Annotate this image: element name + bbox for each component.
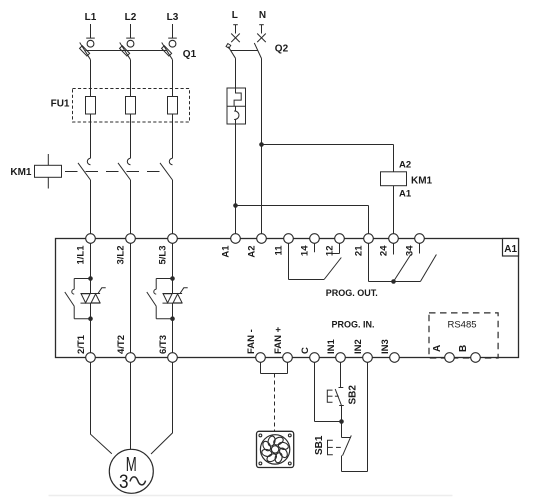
- svg-text:Q2: Q2: [275, 44, 289, 55]
- wire N branch to KM1 coil A2: [262, 144, 394, 146]
- wire fan bracket: [261, 373, 288, 375]
- fuse FU1 pole 2: [126, 97, 136, 115]
- svg-text:PROG. OUT.: PROG. OUT.: [326, 288, 378, 298]
- contactor KM1 linkage dashed: [65, 171, 168, 173]
- wire L2 drop: [130, 24, 132, 38]
- wire KM1 contact 3 to terminal: [172, 180, 174, 234]
- pushbutton SB1 NC contact: [342, 437, 351, 439]
- pushbutton SB2 actuator: [327, 390, 332, 402]
- breaker Q1 pole 2 blade: [120, 43, 131, 60]
- terminal IN2: [363, 353, 373, 363]
- svg-text:L1: L1: [85, 12, 97, 23]
- terminal 4/T2: [126, 353, 136, 363]
- wire supply drop: [261, 25, 263, 34]
- Q2 magnetic release element: [235, 106, 237, 111]
- breaker Q1 linkage bar: [86, 50, 168, 52]
- relay 1 NO stub terminal 14: [314, 243, 316, 252]
- scan artifact line: [49, 495, 453, 497]
- terminal A1: [231, 234, 241, 244]
- svg-text:Q1: Q1: [183, 49, 197, 60]
- bypass contact branch 1/L1: [74, 278, 90, 280]
- breaker Q1 pole 1 blade: [80, 43, 91, 60]
- relay 1 NC stub terminal 12: [339, 243, 341, 253]
- svg-text:IN1: IN1: [326, 339, 337, 355]
- svg-text:12: 12: [325, 246, 336, 257]
- RS485 port dashed outline: [429, 313, 498, 358]
- wire IN1 drop: [340, 362, 342, 387]
- svg-text:21: 21: [354, 245, 365, 256]
- wire 6/T3 to motor: [151, 362, 173, 454]
- fuse block FU1 dashed outline: [73, 89, 190, 123]
- terminal IN1: [336, 353, 346, 363]
- terminal FAN +: [283, 353, 293, 363]
- svg-text:PROG. IN.: PROG. IN.: [331, 320, 374, 330]
- svg-text:A1: A1: [221, 245, 232, 258]
- wire KM1 coil A1 to terminal 24: [393, 186, 395, 234]
- svg-text:B: B: [458, 345, 469, 352]
- svg-text:2/T1: 2/T1: [76, 334, 87, 354]
- terminal 2/T1: [86, 353, 96, 363]
- svg-text:RS485: RS485: [447, 320, 476, 331]
- svg-text:L2: L2: [125, 12, 137, 23]
- contactor KM1 coil (left): [47, 154, 49, 165]
- wire fan dashed lead: [274, 374, 276, 432]
- node L branch junction: [233, 203, 238, 208]
- svg-text:A1: A1: [504, 244, 517, 255]
- svg-text:3/L2: 3/L2: [116, 246, 127, 265]
- wire KM1 contact 2 to terminal: [130, 180, 132, 234]
- svg-text:L3: L3: [167, 12, 179, 23]
- wire N to terminal A2: [261, 59, 263, 234]
- svg-text:34: 34: [405, 245, 416, 256]
- contactor KM1 coil (right): [381, 172, 407, 186]
- thyristor gate 1/L1: [98, 288, 106, 294]
- svg-text:SB1: SB1: [314, 435, 325, 455]
- unit designator box A1: [503, 239, 519, 257]
- node thyristor top junction 1/L1: [88, 276, 93, 281]
- wire Q2 L to release block: [235, 58, 237, 88]
- breaker Q1 pole 2 release box: [120, 46, 130, 56]
- thyristor pair 5/L3: [163, 293, 183, 295]
- breaker Q1 pole 2 fixed contact tick: [126, 37, 135, 39]
- contactor KM1 main contact 1 fixed: [87, 158, 90, 164]
- terminal 11: [284, 234, 294, 244]
- breaker Q2 pole N blade: [254, 43, 261, 59]
- node thyristor top junction 5/L3: [170, 276, 175, 281]
- wire L to terminal A1: [235, 124, 237, 234]
- wire Q1 pole 3 to KM1 contact: [172, 60, 174, 159]
- wire L1 drop: [90, 24, 92, 38]
- pushbutton SB1 actuator: [328, 440, 333, 455]
- fan rotor: [260, 435, 289, 464]
- terminal IN3: [390, 353, 400, 363]
- svg-text:3: 3: [119, 472, 129, 493]
- Q2 thermal release element: [234, 88, 241, 106]
- pushbutton SB2 contact: [339, 387, 344, 389]
- wire 1/L1 to thyristor: [90, 243, 92, 293]
- supply wire tick: [233, 24, 238, 26]
- breaker Q2 fixed contact cross: [231, 34, 240, 43]
- svg-text:1/L1: 1/L1: [76, 245, 87, 265]
- contactor KM1 main contact 3 blade: [160, 163, 173, 180]
- node thyristor bottom junction 1/L1: [88, 316, 93, 321]
- breaker Q1 pole 1 fixed contact tick: [86, 37, 95, 39]
- relay 1 common wire from terminal 11: [288, 243, 290, 279]
- svg-text:5/L3: 5/L3: [158, 246, 169, 265]
- breaker Q1 pole 1 release box: [80, 46, 90, 56]
- node thyristor bottom junction 5/L3: [170, 316, 175, 321]
- svg-text:A: A: [432, 345, 443, 352]
- wire L branch to terminal 21: [236, 205, 369, 207]
- terminal 12: [335, 234, 345, 244]
- terminal 34: [415, 234, 425, 244]
- svg-text:FU1: FU1: [51, 99, 70, 110]
- breaker Q1 pole 1 pivot circle: [87, 40, 94, 47]
- svg-text:14: 14: [300, 245, 311, 256]
- relay 1 changeover blade: [324, 258, 341, 280]
- thyristor pair 1/L1: [81, 293, 101, 295]
- svg-text:C: C: [300, 347, 311, 354]
- fuse FU1 pole 3: [168, 97, 178, 115]
- node relay 2 junction: [391, 279, 396, 284]
- wire 4/T2 to motor: [130, 362, 132, 449]
- relay 2 stub terminal 24: [393, 243, 395, 254]
- supply wire tick: [259, 24, 264, 26]
- terminal C: [310, 353, 320, 363]
- relay 2 NO blade to 34: [420, 255, 436, 282]
- terminal 5/L3: [168, 234, 178, 244]
- breaker Q1 pole 3 blade: [162, 43, 173, 60]
- wire Q1 pole 2 to KM1 contact: [130, 60, 132, 159]
- wire 2/T1 to motor: [91, 362, 112, 454]
- wire 5/L3 to thyristor: [172, 243, 174, 293]
- svg-text:6/T3: 6/T3: [158, 335, 169, 354]
- wire C drop: [314, 362, 316, 421]
- terminal 3/L2: [126, 234, 136, 244]
- wire KM1 contact 1 to terminal: [90, 180, 92, 234]
- wire thyristor to output 5/L3: [172, 303, 174, 353]
- relay 2 NO blade to 24: [394, 255, 411, 282]
- svg-text:KM1: KM1: [411, 176, 433, 187]
- wire SB1 return to IN2: [342, 471, 368, 473]
- breaker Q1 pole 3 release box: [162, 46, 172, 56]
- svg-text:IN3: IN3: [380, 339, 391, 354]
- terminal A2: [257, 234, 267, 244]
- contactor KM1 main contact 2 blade: [118, 163, 131, 180]
- relay 2 stub terminal 34: [419, 243, 421, 253]
- wire junction to SB1: [341, 422, 343, 438]
- svg-text:11: 11: [274, 245, 285, 256]
- svg-text:SB2: SB2: [347, 385, 358, 405]
- breaker Q2 linkage bar: [231, 50, 258, 52]
- breaker Q2 pole L blade: [228, 47, 235, 59]
- fan frame: [257, 431, 294, 467]
- thyristor gate 5/L3: [180, 288, 188, 294]
- svg-text:KM1: KM1: [10, 167, 32, 178]
- svg-text:N: N: [259, 10, 266, 21]
- svg-text:24: 24: [379, 245, 390, 256]
- svg-text:4/T2: 4/T2: [116, 335, 127, 354]
- terminal FAN -: [256, 353, 266, 363]
- svg-text:IN2: IN2: [353, 339, 364, 354]
- terminal B: [471, 353, 481, 363]
- wire FAN+ drop: [287, 362, 289, 373]
- node SB junction: [339, 419, 344, 424]
- svg-text:L: L: [232, 10, 238, 21]
- breaker Q1 pole 2 pivot circle: [127, 40, 134, 47]
- svg-text:A2: A2: [399, 160, 411, 171]
- svg-text:FAN -: FAN -: [246, 329, 257, 354]
- breaker Q1 pole 3 pivot circle: [169, 40, 176, 47]
- contactor KM1 main contact 2 fixed: [127, 158, 130, 164]
- wire L3 drop: [172, 24, 174, 38]
- svg-text:FAN +: FAN +: [273, 326, 284, 354]
- breaker Q1 pole 3 fixed contact tick: [168, 37, 177, 39]
- wire Q1 pole 1 to KM1 contact: [90, 60, 92, 159]
- breaker Q2 fixed contact cross: [257, 34, 266, 43]
- relay 2 common wire from terminal 21: [368, 243, 370, 281]
- terminal 21: [364, 234, 374, 244]
- contactor KM1 main contact 1 blade: [78, 163, 91, 180]
- terminal 6/T3: [168, 353, 178, 363]
- svg-text:A1: A1: [399, 189, 412, 200]
- motor M 3~: [109, 449, 153, 493]
- contactor KM1 main contact 3 fixed: [169, 158, 172, 164]
- terminal 14: [310, 234, 320, 244]
- soft starter unit A1 outline: [56, 239, 519, 358]
- breaker Q2 pole L blade end square: [226, 44, 231, 49]
- terminal 1/L1: [86, 234, 96, 244]
- wire 3/L2 to 4/T2 straight through: [130, 243, 132, 353]
- wire C to junction: [315, 421, 342, 423]
- terminal 24: [389, 234, 399, 244]
- fuse FU1 pole 1: [86, 97, 96, 115]
- wire supply drop: [235, 25, 237, 34]
- bypass contact branch 5/L3: [156, 278, 172, 280]
- Q2 release block outline: [227, 88, 246, 124]
- wire thyristor to output 1/L1: [90, 303, 92, 353]
- svg-text:A2: A2: [247, 246, 258, 258]
- wire FAN- drop: [260, 362, 262, 373]
- node N branch junction: [259, 142, 264, 147]
- terminal A: [445, 353, 455, 363]
